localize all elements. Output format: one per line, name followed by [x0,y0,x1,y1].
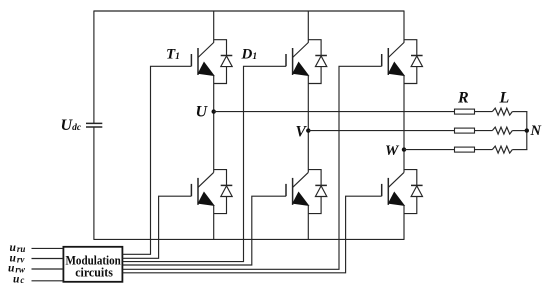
inductor L (phase V) [492,127,512,134]
svg-text:L: L [499,90,510,107]
wire: phase U R-L link [475,111,493,113]
wire: phase V to N [512,130,527,132]
svg-text:circuits: circuits [75,266,113,280]
wire: gate drive T1 (upper U) [122,66,191,254]
wire: phase U line [214,111,455,113]
wire: gate drive Q6 (lower V) [122,196,286,265]
transistor Q5 (IGBT, phase W upper) [382,11,405,173]
wire: phase U to N [512,111,527,113]
modulation circuits block [63,247,122,282]
svg-text:U: U [196,104,209,121]
diode D5 (antiparallel, phase W upper) [404,40,423,84]
diode D4 (antiparallel, phase U lower) [214,170,233,214]
transistor Q4 (IGBT, phase U lower) [191,172,214,240]
svg-text:V: V [296,124,308,141]
capacitor Udc (DC-link) [86,123,102,127]
wire: input u_rv [32,258,64,260]
resistor R (phase W) [455,147,475,152]
wire: input u_rw [32,268,64,270]
wire: neutral vertical link [526,112,528,150]
label Modulation circuits [66,253,121,279]
wire: left DC branch upper [93,11,95,124]
resistor R (phase V) [455,128,475,133]
diode D1 (antiparallel, phase U upper) [214,40,233,84]
transistor T1 (IGBT, phase U upper) [191,11,214,173]
inductor L (phase U) [492,108,512,115]
diode D6 (antiparallel, phase V lower) [308,170,327,214]
wire: gate drive Q4 (lower U) [122,196,191,258]
svg-text:uc: uc [13,273,24,285]
diode D3 (antiparallel, phase V upper) [308,40,327,84]
wire: phase W to N [512,149,527,151]
inductor L (phase W) [492,146,512,153]
wire: phase W line [404,149,455,151]
node V [306,128,310,132]
node U [212,109,216,113]
wire: phase W R-L link [475,149,493,151]
transistor Q2 (IGBT, phase W lower) [382,172,405,240]
resistor R (phase U) [455,109,475,114]
svg-text:R: R [457,90,469,107]
diode D2 (antiparallel, phase W lower) [404,170,423,214]
svg-text:N: N [530,123,542,139]
transistor Q3 (IGBT, phase V upper) [286,11,309,173]
node W [402,147,406,151]
wire: gate drive Q5 (upper W) [122,66,381,269]
wire: input u_ru [32,247,64,249]
wire: phase V line [308,130,454,132]
wire: gate drive Q3 (upper V) [122,66,286,261]
transistor Q6 (IGBT, phase V lower) [286,172,309,240]
svg-text:W: W [385,143,400,159]
node N [525,128,529,132]
wire: input u_c [32,280,64,282]
wire: gate drive Q2 (lower W) [122,196,381,273]
wire: bottom DC rail [94,238,404,240]
wire: top DC rail [94,10,404,12]
wire: phase V R-L link [475,130,493,132]
wire: left DC branch lower [93,127,95,239]
